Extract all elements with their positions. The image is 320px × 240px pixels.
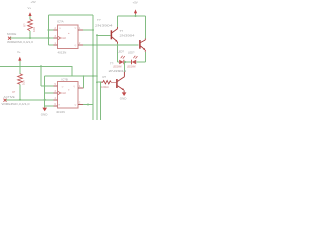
junction ACTIVE/x44 <box>44 99 46 101</box>
svg-text:MODE: MODE <box>7 32 16 36</box>
wire x41 to IC2 pin1 <box>41 85 54 87</box>
svg-text:4013N: 4013N <box>56 110 65 114</box>
supply P3 arrow <box>134 9 137 14</box>
wire base T2 <box>97 34 111 36</box>
wire vertical x93 <box>92 15 94 120</box>
junction R3/x97 <box>96 81 98 83</box>
transistor T2 <box>111 27 117 44</box>
wire LED node horizontal <box>124 61 131 63</box>
wire LED1 anode lead <box>118 61 120 63</box>
svg-text:LED?: LED? <box>128 51 135 55</box>
junction LED node <box>124 61 126 63</box>
svg-text:+5V: +5V <box>133 0 138 4</box>
wire T1 emitter down <box>145 52 147 62</box>
junction net45/x97 <box>96 44 98 46</box>
ground GND2 <box>42 108 47 112</box>
wire T1 collector drop <box>145 16 147 39</box>
wire IC2 right top jog <box>83 76 85 88</box>
svg-text:GND: GND <box>120 96 128 100</box>
wire LED node down to T3 collector <box>123 62 125 72</box>
svg-text:4013N: 4013N <box>58 50 67 54</box>
resistor R3 <box>101 81 111 84</box>
junction R3/x100 <box>100 81 102 83</box>
svg-text:10k: 10k <box>22 80 26 85</box>
svg-text:CLK: CLK <box>61 36 66 40</box>
wire vertical x44 <box>44 76 46 106</box>
resistor R2 <box>18 74 23 85</box>
IC1 pin stubs right <box>78 30 83 45</box>
junction base T2/x97 <box>96 34 98 36</box>
IC1 box <box>58 25 79 49</box>
wire R1 to MODE net <box>29 31 31 38</box>
svg-text:R?: R? <box>103 75 107 79</box>
svg-text:CLK: CLK <box>61 91 66 95</box>
wire T2 emitter down <box>117 44 119 62</box>
junction rail B <box>135 15 137 17</box>
transistor T1 <box>140 39 145 52</box>
wirepad ACTIVE X <box>4 99 7 102</box>
IC1 pin stubs left <box>54 30 58 45</box>
resistor R1 <box>28 19 33 31</box>
wire vertical x100 <box>100 82 102 120</box>
IC2 clk marker <box>58 91 61 94</box>
wire x44 to IC2 clk pin <box>45 92 54 94</box>
wire MODE horizontal <box>10 37 54 39</box>
transistor T3 <box>117 72 125 92</box>
junction MODE/x48 <box>48 37 50 39</box>
junction x93/y30 <box>92 29 94 31</box>
junction R2/ACTIVE <box>19 99 21 101</box>
ground GND1 <box>122 92 127 96</box>
junction net78/x93 <box>92 75 94 77</box>
wire R2 to ACTIVE net <box>19 84 21 100</box>
LED D1 <box>119 56 125 65</box>
svg-text:V+: V+ <box>28 6 32 10</box>
svg-text:T?: T? <box>97 18 101 22</box>
wire top rail A <box>49 14 94 16</box>
svg-text:IC?A: IC?A <box>57 20 64 24</box>
junction net66/x41 <box>40 65 42 67</box>
wire ACTIVE horizontal <box>6 99 54 101</box>
junction net45/x117 <box>117 44 119 46</box>
wire vertical x41 <box>40 66 42 86</box>
svg-text:R?: R? <box>22 23 26 27</box>
wire arrow P3 to rail B <box>135 14 137 16</box>
IC2 pin stubs left <box>54 86 58 106</box>
wire to IC1 pin3 <box>49 44 54 46</box>
junction R1/MODE <box>29 37 31 39</box>
wire LED2 anode lead <box>136 61 145 63</box>
junction net78/x97 <box>96 75 98 77</box>
wire to IC1 pin1 <box>49 29 54 31</box>
svg-text:LED3MM: LED3MM <box>127 65 136 68</box>
wire vertical x97 <box>96 35 98 120</box>
IC2 box <box>58 82 79 109</box>
svg-text:T?: T? <box>110 62 114 66</box>
svg-text:WIREPAD,3,4/1,0: WIREPAD,3,4/1,0 <box>2 102 31 106</box>
svg-text:Q: Q <box>75 104 77 106</box>
wirepad MODE X <box>8 37 11 40</box>
wire IC2 right bottom <box>83 104 93 106</box>
wire vertical x48 <box>48 15 50 45</box>
junction net45/x93 <box>92 44 94 46</box>
wire x44 to GND2 <box>44 106 46 108</box>
svg-text:ACTIVE: ACTIVE <box>4 95 15 99</box>
wire net45 long <box>83 44 139 46</box>
wire R3 to T3 base <box>111 81 116 83</box>
wire vertical x72 <box>71 66 73 76</box>
IC1 clk marker <box>58 36 61 39</box>
svg-text:Q: Q <box>73 86 75 88</box>
wire rail B <box>118 15 146 17</box>
svg-text:V+: V+ <box>17 50 21 54</box>
wire supply P2 to R2 <box>19 61 21 74</box>
wire supply P1 to R1 <box>29 16 31 19</box>
svg-text:+5V: +5V <box>31 0 36 4</box>
svg-text:100kΩ: 100kΩ <box>101 85 109 89</box>
svg-text:LED?: LED? <box>118 50 125 54</box>
wire x44 to IC2 pin4 <box>45 105 54 107</box>
wire IC1 Q to x93 <box>83 29 93 31</box>
svg-text:Q: Q <box>75 45 77 47</box>
svg-text:2N3904: 2N3904 <box>120 33 135 37</box>
junction net78/x83 <box>83 75 85 77</box>
svg-text:WIREPAD,3,4/1,0: WIREPAD,3,4/1,0 <box>7 40 34 44</box>
LED D2 <box>132 56 138 65</box>
supply P2 arrow <box>18 57 21 61</box>
svg-text:2N3904: 2N3904 <box>109 69 127 73</box>
wire T2 collector up <box>117 16 119 27</box>
svg-text:GND: GND <box>41 112 49 116</box>
IC2 pin stubs right <box>78 88 83 105</box>
junction x48 pin1 row <box>48 29 50 31</box>
supply P1 arrow symbol <box>28 12 31 16</box>
svg-text:T?: T? <box>120 29 124 33</box>
wire net78 <box>45 75 97 77</box>
junction IC2 bottom wire <box>87 104 89 106</box>
wire R3 left <box>97 81 101 83</box>
svg-text:2N3904: 2N3904 <box>95 24 113 28</box>
svg-text:Q: Q <box>75 27 77 29</box>
svg-text:10k: 10k <box>32 27 36 32</box>
wire net66 <box>0 65 73 67</box>
